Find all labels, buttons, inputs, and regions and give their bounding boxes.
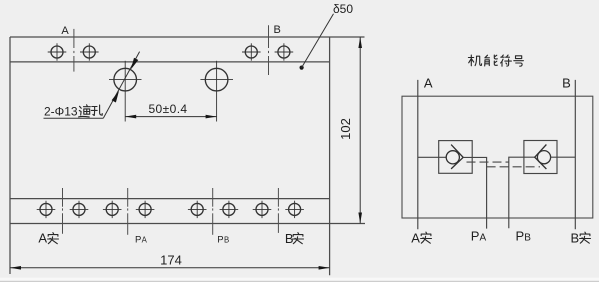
svg-text:B: B: [285, 231, 294, 246]
bottom hole 5: [188, 201, 207, 218]
svg-text:P: P: [135, 234, 141, 245]
svg-text:B: B: [524, 232, 531, 243]
check valve V1 ball: [446, 151, 459, 164]
glyph tong 通: [79, 105, 91, 117]
svg-text:A: A: [61, 25, 69, 37]
svg-text:A: A: [38, 230, 47, 245]
top hole B2: [275, 43, 294, 60]
top hole B1: [242, 43, 261, 60]
svg-text:δ50: δ50: [333, 2, 353, 16]
wire valve1 to PA corner: [463, 157, 486, 228]
svg-text:50±0.4: 50±0.4: [148, 102, 187, 116]
leader underline: [44, 117, 104, 119]
plate top edge (extends right as extension line for 102 dim): [10, 36, 365, 38]
fn line B (vertical): [574, 80, 576, 229]
glyph fu 符: [501, 55, 510, 57]
plate left edge (extends down as extension line for 174 dim): [9, 37, 11, 274]
bottom zone centerline A安: [62, 188, 64, 234]
fn line A (vertical): [417, 80, 419, 229]
svg-text:A: A: [424, 75, 433, 90]
svg-text:2-Φ13: 2-Φ13: [44, 104, 78, 118]
plate bottom band top line: [10, 198, 330, 200]
glyph an 安 (plate A安): [48, 233, 59, 244]
big hole 1 (phi13): [109, 61, 142, 122]
big hole 2 (phi13): [200, 61, 233, 122]
centerline A (top): [73, 29, 75, 72]
glyph neng 能: [485, 55, 490, 58]
pilot dashed line to V2 (from PA): [487, 166, 540, 168]
wire valve2 to B: [550, 156, 575, 158]
leader arrow upper: [131, 58, 138, 70]
bottom edge artifact: [0, 278, 599, 281]
dim 102 line: [359, 37, 361, 224]
bottom hole 8: [285, 201, 304, 218]
bottom hole 4: [136, 201, 155, 218]
check valve V2 square: [524, 141, 557, 174]
plate bottom edge (extends right as extension line for 102 dim): [10, 223, 365, 225]
leader 2-phi13 line: [103, 52, 139, 119]
check valve V2 ball: [537, 151, 550, 164]
check valve V1 seat: [451, 145, 463, 169]
dim 50±0.4 line: [125, 116, 216, 118]
dim 50±0.4 arrow right: [206, 115, 217, 119]
top hole A1: [48, 43, 67, 60]
svg-text:102: 102: [338, 118, 353, 140]
dim 174 line: [10, 267, 330, 269]
bottom zone centerline PB: [212, 188, 214, 235]
svg-text:P: P: [471, 228, 480, 243]
svg-text:174: 174: [160, 253, 182, 268]
dim 174 arrow left: [10, 266, 21, 270]
title 机能符号: [468, 55, 523, 66]
glyph an 安 (plate B安): [293, 233, 304, 244]
glyph an 安 (fn B安): [580, 232, 591, 243]
plate right edge (extends down as extension line for 174 dim): [329, 37, 331, 275]
leader arrow lower: [112, 91, 119, 103]
svg-text:B: B: [571, 230, 580, 245]
glyph an 安 (fn A安): [421, 232, 432, 243]
svg-text:A: A: [480, 232, 487, 243]
svg-text:P: P: [516, 228, 525, 243]
svg-text:A: A: [142, 235, 148, 244]
bottom hole 1: [37, 201, 56, 218]
svg-text:B: B: [224, 235, 229, 244]
svg-text:A: A: [411, 230, 420, 245]
centerline B (top): [268, 25, 270, 75]
fn symbol outer box: [402, 96, 593, 218]
dim 174 arrow right: [319, 266, 330, 270]
check valve V2 seat: [535, 145, 547, 170]
glyph kong 孔: [91, 105, 102, 116]
glyph hao 号: [516, 56, 522, 59]
bottom hole 7: [253, 201, 272, 218]
label delta50 leader: [302, 14, 334, 68]
plate top band bottom line: [10, 61, 330, 63]
dim 102 arrow bottom: [358, 213, 362, 224]
wire valve2 to PB corner: [509, 157, 535, 228]
bottom hole 6: [220, 201, 239, 218]
bottom hole 3: [103, 201, 122, 218]
top hole A2: [80, 43, 99, 60]
dim 50±0.4 arrow left: [125, 115, 136, 119]
bottom hole 2: [70, 201, 89, 218]
glyph ji 机: [468, 55, 473, 66]
bottom zone centerline B安: [277, 188, 279, 233]
pilot dashed line to V1 (from PB): [467, 161, 509, 163]
svg-text:B: B: [562, 75, 571, 90]
label delta50 leader dot: [300, 66, 304, 70]
wire A to valve1: [418, 156, 447, 158]
svg-text:P: P: [217, 234, 223, 245]
check valve V1 square: [439, 141, 473, 174]
bottom zone centerline PA: [127, 188, 129, 235]
svg-text:B: B: [274, 24, 281, 36]
dim 102 arrow top: [358, 37, 362, 48]
